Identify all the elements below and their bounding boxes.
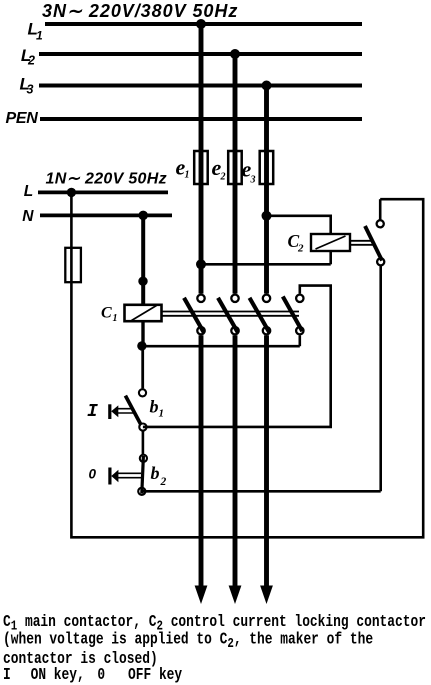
svg-text:PEN: PEN (6, 110, 39, 127)
svg-text:I: I (3, 667, 11, 685)
svg-text:1: 1 (185, 170, 190, 181)
svg-text:b: b (151, 463, 160, 483)
svg-text:2: 2 (297, 243, 304, 255)
svg-text:N: N (22, 208, 34, 225)
svg-text:3: 3 (250, 175, 256, 186)
svg-text:3N∼ 220V/380V 50Hz: 3N∼ 220V/380V 50Hz (42, 1, 238, 21)
svg-text:3: 3 (27, 83, 34, 97)
svg-text:OFF key: OFF key (128, 667, 182, 685)
svg-text:0: 0 (89, 467, 97, 482)
svg-text:1: 1 (113, 313, 118, 324)
svg-text:C: C (101, 305, 112, 322)
svg-text:1: 1 (159, 408, 165, 420)
svg-text:(when voltage is applied to C2: (when voltage is applied to C2, the make… (3, 631, 373, 651)
svg-text:I: I (87, 402, 98, 422)
svg-text:2: 2 (27, 54, 35, 68)
svg-text:2: 2 (220, 172, 226, 183)
svg-text:1: 1 (36, 29, 43, 43)
svg-text:1N∼ 220V 50Hz: 1N∼ 220V 50Hz (46, 171, 167, 188)
svg-text:L: L (24, 183, 33, 200)
svg-text:2: 2 (160, 476, 167, 488)
svg-text:0: 0 (97, 667, 105, 685)
svg-text:ON key,: ON key, (31, 667, 85, 685)
svg-text:b: b (150, 397, 159, 417)
